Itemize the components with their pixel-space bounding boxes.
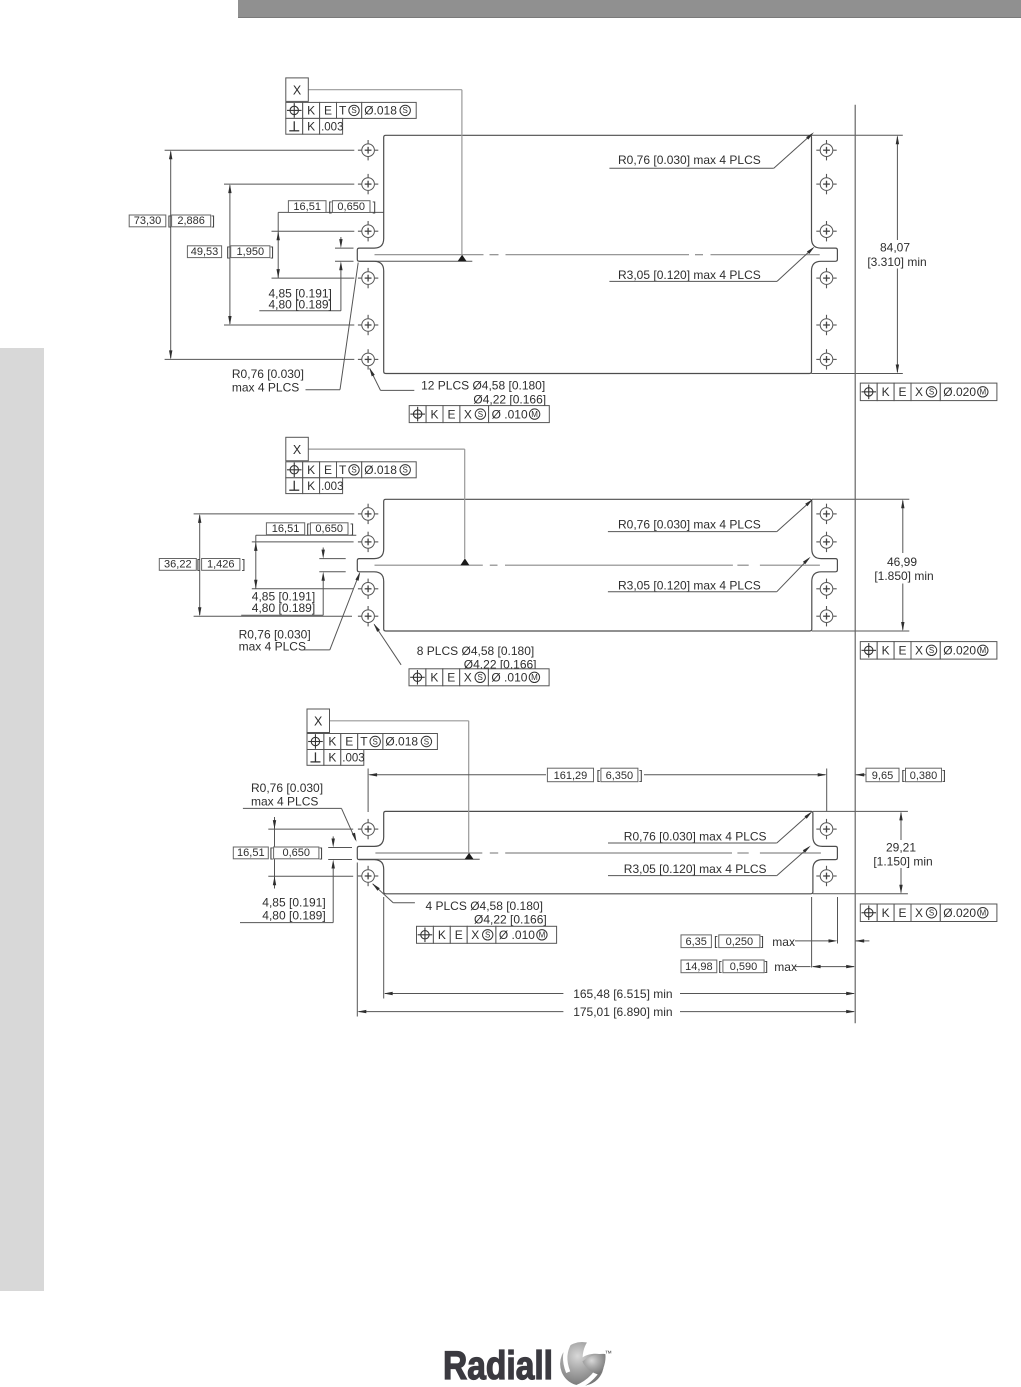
svg-text:Ø4,22 [0.166]: Ø4,22 [0.166] xyxy=(473,392,546,406)
extension lines top/bottom right drawing 2 xyxy=(812,499,910,631)
centerline (dash-dot) xyxy=(375,254,820,256)
svg-text:[: [ xyxy=(306,522,310,536)
panel cutout outline drawing 1 xyxy=(357,135,837,373)
panel cutout outline drawing 2 xyxy=(357,499,837,631)
svg-text:R0,76 [0.030] max 4 PLCS: R0,76 [0.030] max 4 PLCS xyxy=(618,518,761,532)
feature control frame holes drawing 2 xyxy=(409,669,549,686)
value boxes 73,30 [2,886] xyxy=(129,214,215,228)
svg-text:.003: .003 xyxy=(342,753,364,765)
dimension text 4,85/4,80 drawing 2 xyxy=(252,589,315,615)
extension lines hole columns drawing 3 xyxy=(368,769,827,813)
svg-text:[3.310] min: [3.310] min xyxy=(867,255,926,269)
Radiall logo xyxy=(443,1341,612,1387)
dimension line 16,51 drawing 3 xyxy=(273,817,276,889)
svg-text:K: K xyxy=(438,928,446,942)
dimension text 46,99 [1.850] min xyxy=(874,555,933,583)
hole target R5 drawing 1 xyxy=(816,315,836,335)
hole target L2 drawing 1 xyxy=(358,174,378,194)
hole target R1 drawing 2 xyxy=(816,504,836,524)
svg-text:]: ] xyxy=(639,768,642,782)
hole target R2 drawing 2 xyxy=(816,532,836,552)
feature control frame holes drawing 3 xyxy=(417,926,557,943)
svg-text:Ø .010: Ø .010 xyxy=(492,407,528,421)
svg-text:max: max xyxy=(772,935,795,949)
svg-text:.003: .003 xyxy=(321,481,343,493)
label R0,76 top drawing 2 with leader xyxy=(608,499,813,532)
svg-text:[: [ xyxy=(901,768,905,782)
svg-text:M: M xyxy=(979,388,986,397)
label R0,76 max 4 PLCS (lower left) with leader xyxy=(232,263,358,395)
svg-text:M: M xyxy=(531,673,538,682)
svg-text:K: K xyxy=(882,906,890,920)
svg-text:S: S xyxy=(485,931,490,940)
svg-text:]: ] xyxy=(211,214,214,228)
svg-text:0,250: 0,250 xyxy=(726,936,754,948)
value boxes 49,53 [1,950] xyxy=(187,245,274,259)
svg-text:K: K xyxy=(882,385,890,399)
svg-text:36,22: 36,22 xyxy=(164,559,192,571)
hole target L3 drawing 2 xyxy=(358,579,378,599)
extension lines rows 1/4 drawing 2 xyxy=(194,514,355,616)
leader from target L2 drawing 3 xyxy=(372,883,415,903)
top gray header bar xyxy=(238,0,1021,18)
svg-text:12 PLCS Ø4,58 [0.180]: 12 PLCS Ø4,58 [0.180] xyxy=(421,379,545,393)
hole target L5 drawing 1 xyxy=(358,315,378,335)
hole target L1 drawing 1 xyxy=(358,140,378,160)
svg-text:[: [ xyxy=(270,846,274,860)
slot lower edge line xyxy=(359,260,472,262)
svg-text:2,886: 2,886 xyxy=(177,215,205,227)
hole target R2 drawing 3 xyxy=(816,866,836,886)
datum target leader + X datum frame drawing 2 xyxy=(286,437,470,565)
value boxes 16,51 [0,650] drawing 2 xyxy=(266,522,354,536)
svg-text:0,590: 0,590 xyxy=(730,961,758,973)
svg-text:S: S xyxy=(478,673,483,682)
svg-text:16,51: 16,51 xyxy=(272,523,300,535)
svg-text:]: ] xyxy=(271,245,274,259)
svg-text:4,80 [0.189]: 4,80 [0.189] xyxy=(262,909,325,923)
svg-text:73,30: 73,30 xyxy=(134,215,162,227)
svg-text:X: X xyxy=(293,84,302,98)
svg-text:S: S xyxy=(403,466,408,475)
value boxes 16,51 [0,650] drawing 3 xyxy=(233,846,323,860)
extension lines notch face / right edge down xyxy=(812,897,838,968)
svg-text:E: E xyxy=(899,644,907,658)
svg-text:M: M xyxy=(979,646,986,655)
svg-text:E: E xyxy=(899,385,907,399)
svg-text:8 PLCS Ø4,58 [0.180]: 8 PLCS Ø4,58 [0.180] xyxy=(417,644,534,658)
svg-text:]: ] xyxy=(373,200,376,214)
svg-text:X: X xyxy=(464,407,472,421)
svg-text:]: ] xyxy=(942,768,945,782)
svg-text:™: ™ xyxy=(605,1351,612,1358)
panel cutout outline drawing 3 xyxy=(357,811,837,893)
panel edge vertical line xyxy=(854,105,856,1023)
label R3,05 drawing 2 with leader xyxy=(608,557,811,593)
svg-text:S: S xyxy=(403,106,408,115)
svg-text:R0,76 [0.030]: R0,76 [0.030] xyxy=(232,367,304,381)
svg-text:Ø.018: Ø.018 xyxy=(385,735,418,749)
dimension line 46,99 xyxy=(901,499,904,631)
svg-text:K: K xyxy=(307,463,315,477)
dimension line 16,51 with shelf xyxy=(277,212,384,278)
hole target R3 drawing 1 xyxy=(816,221,836,241)
svg-text:[: [ xyxy=(197,558,201,572)
svg-text:T: T xyxy=(339,104,347,118)
svg-text:K: K xyxy=(307,479,315,493)
svg-text:Ø.020: Ø.020 xyxy=(943,385,976,399)
svg-text:S: S xyxy=(373,737,378,746)
hole target L2 drawing 3 xyxy=(358,866,378,886)
svg-text:4 PLCS Ø4,58 [0.180]: 4 PLCS Ø4,58 [0.180] xyxy=(426,899,543,913)
svg-text:X: X xyxy=(464,671,472,685)
svg-text:1,950: 1,950 xyxy=(237,246,265,258)
label R3,05 drawing 3 with leader xyxy=(608,846,811,877)
svg-text:max 4 PLCS: max 4 PLCS xyxy=(239,639,306,653)
value boxes 36,22 [1,426] xyxy=(159,558,245,572)
extension lines rows 2/3 drawing 2 xyxy=(252,542,354,589)
hole target R4 drawing 1 xyxy=(816,268,836,288)
svg-text:R0,76 [0.030] max 4 PLCS: R0,76 [0.030] max 4 PLCS xyxy=(618,153,761,167)
svg-text:161,29: 161,29 xyxy=(554,770,588,782)
svg-text:X: X xyxy=(314,715,323,729)
svg-text:Ø.018: Ø.018 xyxy=(364,104,397,118)
svg-text:84,07: 84,07 xyxy=(880,241,910,255)
centerline drawing 2 xyxy=(375,564,820,566)
feature control frame right drawing 2 xyxy=(860,642,997,660)
hole target R4 drawing 2 xyxy=(816,606,836,626)
svg-text:K: K xyxy=(307,120,315,134)
datum target leader + X datum frame drawing 3 xyxy=(307,709,474,859)
svg-text:S: S xyxy=(351,106,356,115)
feature control frame right drawing 1 xyxy=(860,383,997,401)
svg-text:K: K xyxy=(882,644,890,658)
svg-text:M: M xyxy=(531,410,538,419)
svg-text:46,99: 46,99 xyxy=(887,555,917,569)
label R0,76 right drawing 3 with leader xyxy=(608,811,812,843)
svg-text:K: K xyxy=(328,751,336,765)
svg-text:Ø4,22 [0.166]: Ø4,22 [0.166] xyxy=(474,913,547,927)
svg-text:4,85 [0.191]: 4,85 [0.191] xyxy=(262,896,325,910)
feature control frame holes drawing 1 xyxy=(409,406,549,423)
svg-text:16,51: 16,51 xyxy=(293,201,321,213)
leader from target L6 to hole spec xyxy=(369,368,414,391)
dimension line 29,21 xyxy=(899,811,902,893)
svg-text:E: E xyxy=(447,407,455,421)
svg-text:]: ] xyxy=(320,846,323,860)
hole target R1 drawing 3 xyxy=(816,819,836,839)
svg-text:165,48 [6.515] min: 165,48 [6.515] min xyxy=(573,987,672,1001)
hole target L1 drawing 2 xyxy=(358,504,378,524)
hole target L3 drawing 1 xyxy=(358,221,378,241)
svg-text:49,53: 49,53 xyxy=(191,246,219,258)
svg-text:R0,76 [0.030] max 4 PLCS: R0,76 [0.030] max 4 PLCS xyxy=(624,829,767,843)
svg-text:E: E xyxy=(324,463,332,477)
hole target L2 drawing 2 xyxy=(358,532,378,552)
svg-text:[: [ xyxy=(714,934,718,948)
extension lines rows 2/5 xyxy=(224,184,354,325)
svg-text:6,350: 6,350 xyxy=(606,770,634,782)
svg-text:R3,05 [0.120] max 4 PLCS: R3,05 [0.120] max 4 PLCS xyxy=(618,579,761,593)
svg-text:S: S xyxy=(929,909,934,918)
dimension arrow 9,65 xyxy=(855,773,866,776)
dimension text 4,85/4,80 xyxy=(269,286,332,311)
svg-text:Ø.020: Ø.020 xyxy=(943,906,976,920)
dimension 4,85 arrows drawing 3 xyxy=(240,836,352,922)
svg-text:0,380: 0,380 xyxy=(910,770,938,782)
svg-text:S: S xyxy=(929,388,934,397)
hole target R2 drawing 1 xyxy=(816,174,836,194)
hole target L4 drawing 1 xyxy=(358,268,378,288)
label R0,76 top (drawing 1) with leader xyxy=(609,132,814,168)
svg-text:0,650: 0,650 xyxy=(315,523,343,535)
svg-text:S: S xyxy=(929,646,934,655)
left gray sidebar strip xyxy=(0,348,44,1291)
svg-text:K: K xyxy=(431,407,439,421)
svg-text:S: S xyxy=(478,410,483,419)
svg-text:max 4 PLCS: max 4 PLCS xyxy=(232,380,299,394)
svg-text:4,80 [0.189]: 4,80 [0.189] xyxy=(269,298,332,312)
dimension text 4,85/4,80 drawing 3 xyxy=(262,896,325,923)
svg-text:E: E xyxy=(345,735,353,749)
dimension 175,01 [6.890] min xyxy=(357,1005,855,1019)
svg-text:.003: .003 xyxy=(321,122,343,134)
extension lines left down drawing 3 xyxy=(357,863,383,1017)
dimension 6,35 [0,250] max xyxy=(681,934,869,949)
extension lines top/bottom right xyxy=(812,135,903,373)
svg-text:M: M xyxy=(979,909,986,918)
svg-text:R3,05 [0.120] max 4 PLCS: R3,05 [0.120] max 4 PLCS xyxy=(624,862,767,876)
svg-text:Ø .010: Ø .010 xyxy=(491,671,527,685)
svg-text:[: [ xyxy=(226,245,230,259)
extension lines rows 3/4 xyxy=(272,231,355,278)
svg-text:K: K xyxy=(430,671,438,685)
svg-text:]: ] xyxy=(242,558,245,572)
svg-text:1,426: 1,426 xyxy=(207,559,235,571)
svg-text:Ø.020: Ø.020 xyxy=(943,644,976,658)
extension lines rows 1/6 xyxy=(165,150,355,359)
value boxes 161,29 [6,350] xyxy=(547,768,642,782)
svg-text:X: X xyxy=(915,385,923,399)
hole target R6 drawing 1 xyxy=(816,349,836,369)
svg-text:]: ] xyxy=(350,522,353,536)
dimension line 16,51 drawing 2 xyxy=(254,535,356,589)
hole spec text 4 PLCS xyxy=(426,899,547,927)
svg-text:S: S xyxy=(351,466,356,475)
label R0,76 lower left drawing 2 with leader xyxy=(239,572,361,654)
svg-text:Radiall: Radiall xyxy=(443,1344,553,1387)
svg-text:[: [ xyxy=(168,214,172,228)
dimension line 49,53 xyxy=(228,184,231,325)
svg-text:R0,76 [0.030]: R0,76 [0.030] xyxy=(251,781,323,795)
svg-text:[1.850] min: [1.850] min xyxy=(874,569,933,583)
svg-text:T: T xyxy=(339,463,347,477)
svg-text:K: K xyxy=(328,735,336,749)
dimension line 161,29 xyxy=(368,773,827,776)
svg-text:]: ] xyxy=(765,960,768,974)
svg-text:16,51: 16,51 xyxy=(237,847,265,859)
svg-text:E: E xyxy=(447,671,455,685)
dimension 4,85 arrows drawing 2 xyxy=(241,548,346,616)
hole spec text 12 PLCS xyxy=(421,379,546,407)
hole target R3 drawing 2 xyxy=(816,579,836,599)
dimension 165,48 [6.515] min xyxy=(384,987,856,1001)
datum target leader + X datum frame drawing 1 xyxy=(286,78,467,261)
label R3,05 (drawing 1) with leader xyxy=(609,247,814,283)
svg-text:4,80 [0.189]: 4,80 [0.189] xyxy=(252,601,315,615)
svg-text:Ø.018: Ø.018 xyxy=(364,463,397,477)
svg-text:[: [ xyxy=(718,960,722,974)
svg-text:max 4 PLCS: max 4 PLCS xyxy=(251,795,318,809)
dimension text 29,21 [1.150] min xyxy=(873,841,932,869)
svg-text:29,21: 29,21 xyxy=(886,841,916,855)
hole target L6 drawing 1 xyxy=(358,349,378,369)
hole target R1 drawing 1 xyxy=(816,140,836,160)
label R0,76 upper left drawing 3 with leader xyxy=(243,781,357,842)
svg-text:E: E xyxy=(455,928,463,942)
value boxes 9,65 [0,380] xyxy=(866,768,946,782)
svg-text:6,35: 6,35 xyxy=(685,936,706,948)
extension lines rows 1/2 drawing 3 xyxy=(268,829,353,876)
svg-text:X: X xyxy=(293,443,302,457)
dimension 4,85 arrows + leader xyxy=(259,237,353,311)
svg-text:T: T xyxy=(360,735,368,749)
extension lines top/bottom right drawing 3 xyxy=(813,811,908,893)
svg-text:0,650: 0,650 xyxy=(337,201,365,213)
svg-text:]: ] xyxy=(760,934,763,948)
svg-text:R3,05 [0.120] max 4 PLCS: R3,05 [0.120] max 4 PLCS xyxy=(618,268,761,282)
dimension text 84,07 [3.310] min xyxy=(867,241,926,269)
svg-text:E: E xyxy=(324,104,332,118)
dimension 14,98 [0,590] max xyxy=(681,960,855,975)
svg-text:[: [ xyxy=(328,200,332,214)
svg-text:X: X xyxy=(471,928,479,942)
dimension line 36,22 xyxy=(198,514,201,616)
svg-text:X: X xyxy=(915,644,923,658)
value boxes 16,51 [0,650] xyxy=(288,200,376,214)
svg-text:E: E xyxy=(899,906,907,920)
svg-text:[1.150] min: [1.150] min xyxy=(873,854,932,868)
svg-text:175,01 [6.890] min: 175,01 [6.890] min xyxy=(573,1005,672,1019)
hole spec text 8 PLCS xyxy=(417,644,537,672)
svg-text:S: S xyxy=(424,737,429,746)
svg-text:14,98: 14,98 xyxy=(685,961,713,973)
svg-text:max: max xyxy=(774,960,797,974)
svg-text:X: X xyxy=(915,906,923,920)
svg-text:0,650: 0,650 xyxy=(282,847,310,859)
leader from target L4 drawing 2 xyxy=(374,624,402,665)
svg-text:Ø .010: Ø .010 xyxy=(499,928,535,942)
hole target L1 drawing 3 xyxy=(358,819,378,839)
slot lower edge line drawing 3 xyxy=(359,858,480,860)
dimension line 73,30 xyxy=(169,150,172,359)
svg-text:9,65: 9,65 xyxy=(872,770,893,782)
svg-text:M: M xyxy=(539,931,546,940)
feature control frame right drawing 3 xyxy=(860,904,997,922)
centerline drawing 3 xyxy=(375,852,821,854)
hole target L4 drawing 2 xyxy=(358,606,378,626)
svg-text:K: K xyxy=(307,104,315,118)
svg-text:[: [ xyxy=(597,768,601,782)
dimension line 84,07 xyxy=(896,135,899,373)
